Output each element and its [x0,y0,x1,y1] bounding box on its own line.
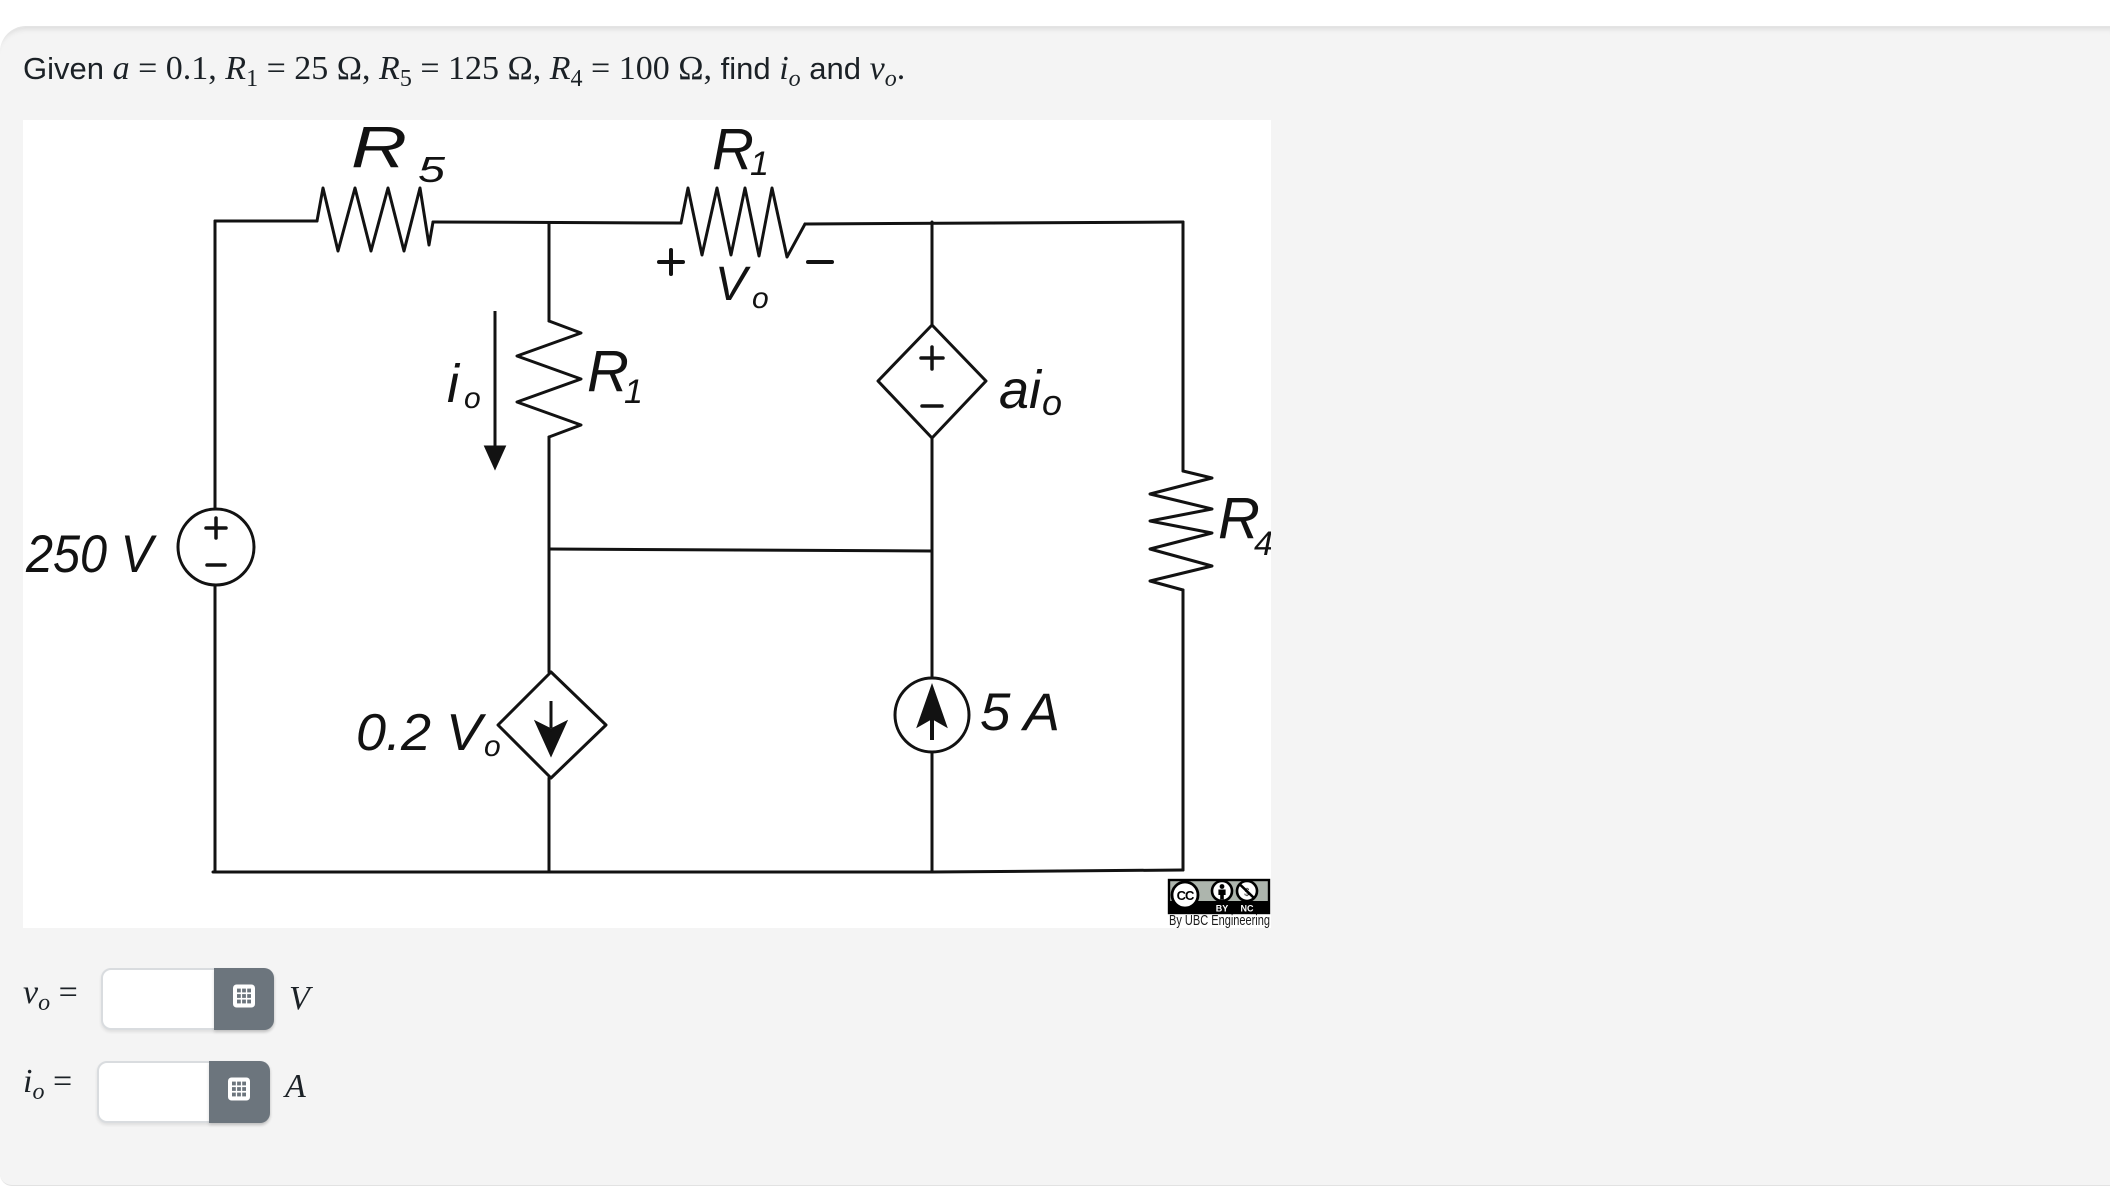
svg-text:0.2 V: 0.2 V [356,704,486,762]
svg-text:ai: ai [999,360,1043,420]
svg-text:R: R [587,339,629,404]
svg-text:o: o [1042,382,1062,423]
svg-text:V: V [715,258,751,311]
svg-text:CC: CC [1177,888,1195,903]
svg-text:By UBC Engineering: By UBC Engineering [1169,912,1270,928]
svg-text:250 V: 250 V [25,525,157,584]
svg-text:5 A: 5 A [980,683,1060,742]
svg-text:R: R [351,120,407,180]
svg-text:1: 1 [750,145,769,183]
svg-text:1: 1 [624,373,643,411]
svg-text:o: o [752,282,769,315]
svg-text:R: R [712,120,754,182]
svg-text:4: 4 [1254,525,1271,563]
svg-text:5: 5 [418,149,446,190]
svg-text:o: o [484,730,501,763]
svg-text:i: i [447,354,461,414]
svg-text:o: o [464,382,481,415]
svg-text:$: $ [1244,887,1250,899]
